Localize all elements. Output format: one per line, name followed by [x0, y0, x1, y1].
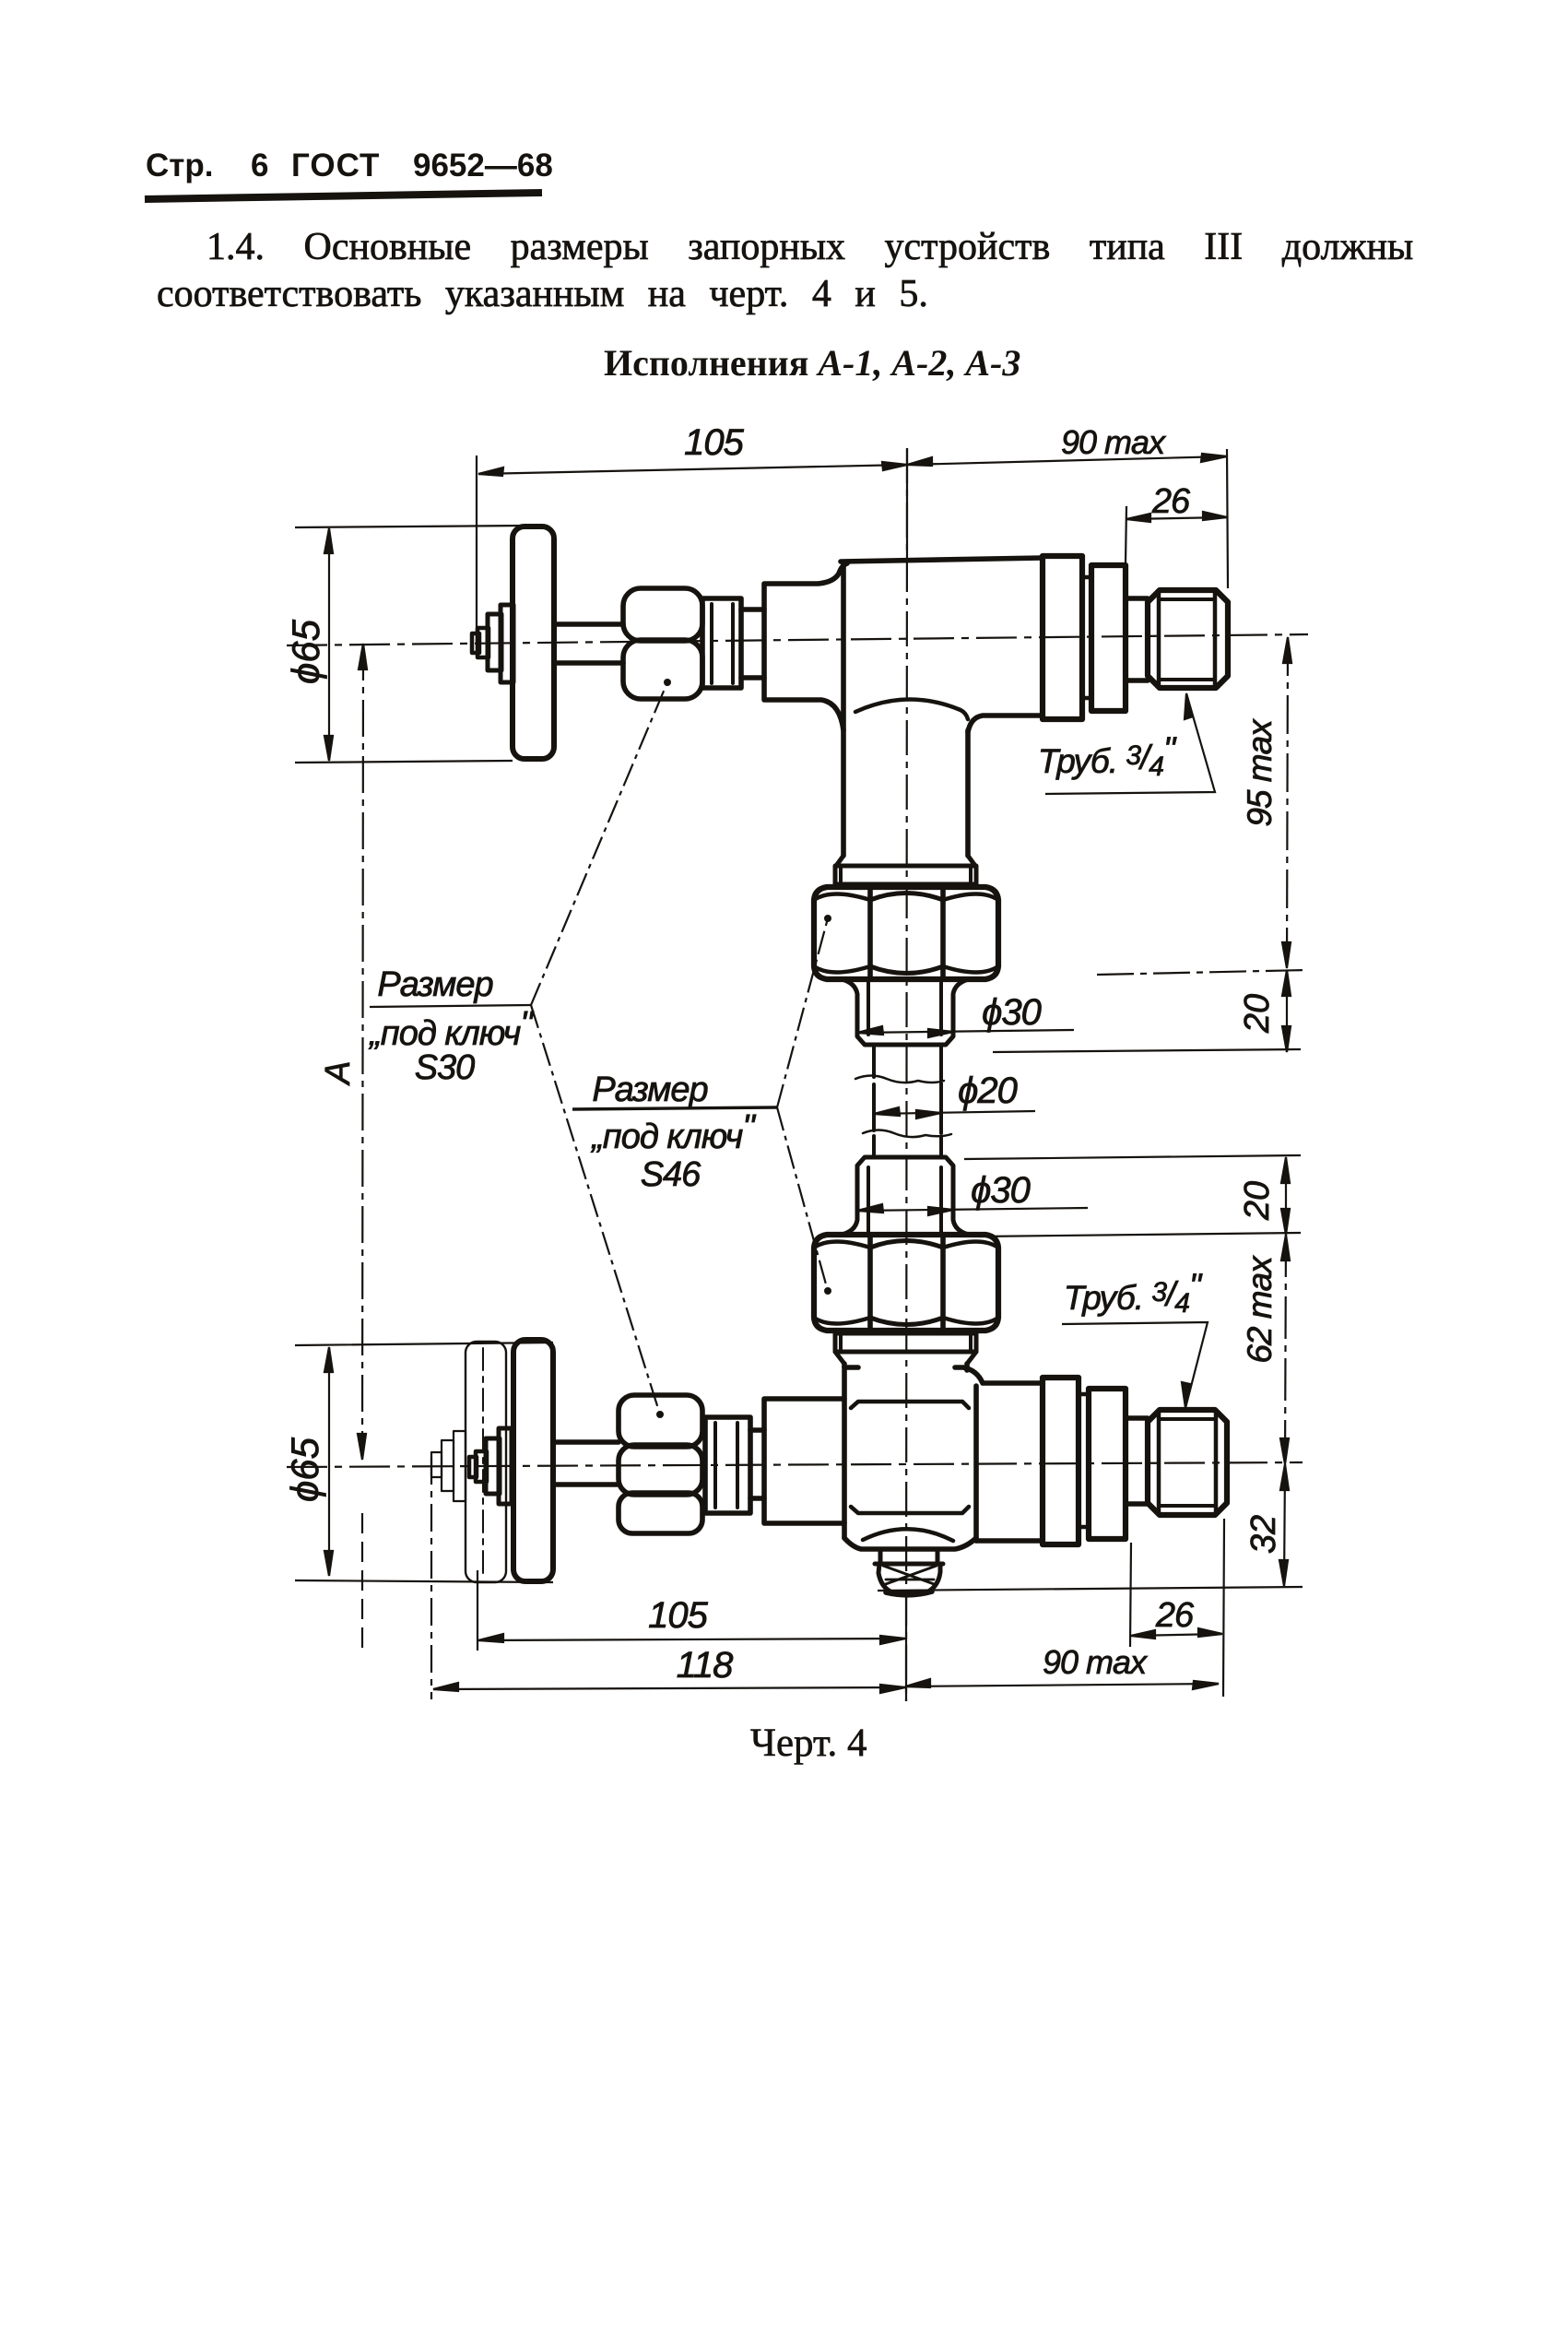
- packing hex nut bottom lobe: [619, 1493, 702, 1533]
- dim 90 max bottom: [905, 1684, 1219, 1686]
- break squiggle 2: [863, 1130, 951, 1138]
- stem nut step: [477, 628, 489, 657]
- svg-text:32: 32: [1244, 1515, 1283, 1554]
- flange 2: [1089, 1389, 1126, 1539]
- packing hex nut bottom lobe: [623, 640, 702, 699]
- handwheel disc (bottom): [513, 1340, 553, 1581]
- neck 2: [1126, 598, 1148, 680]
- dim φ65 bottom: [328, 1347, 330, 1576]
- dim φ30 upper: [857, 1030, 1074, 1033]
- svg-text:26: 26: [1151, 482, 1191, 521]
- outlet pipe walls: [843, 563, 968, 856]
- right shoulder: [955, 1367, 1043, 1383]
- body bottom right + fillet: [968, 716, 1043, 732]
- stem tip: [469, 1457, 477, 1477]
- break squiggle 1: [855, 1076, 944, 1083]
- bottom of central block + drain plate: [844, 1538, 976, 1549]
- handwheel disc (top): [513, 527, 554, 759]
- svg-text:1.4. Основные размеры запорных: 1.4. Основные размеры запорных устройств…: [206, 226, 1413, 268]
- neck 2: [1126, 1418, 1148, 1504]
- svg-text:105: 105: [648, 1595, 708, 1636]
- spindle shaft: [554, 624, 623, 663]
- body left part: [764, 563, 847, 730]
- svg-text:S30: S30: [415, 1048, 475, 1087]
- svg-text:ГОСТ: ГОСТ: [291, 148, 380, 183]
- leader Труб bottom: [1062, 1322, 1208, 1408]
- svg-text:90 max: 90 max: [1061, 423, 1167, 461]
- svg-text:ϕ65: ϕ65: [283, 1437, 326, 1502]
- threaded nipple: [1148, 1410, 1227, 1515]
- leader S46 labels: [572, 1107, 777, 1109]
- gland bush: [705, 1417, 750, 1513]
- svg-text:Труб. 3/4": Труб. 3/4": [1038, 730, 1177, 782]
- upper union collar: [835, 866, 976, 884]
- ext lines 26 top: [1126, 449, 1228, 588]
- body top edge: [841, 558, 1043, 562]
- header underline: [145, 193, 542, 199]
- svg-text:9652—68: 9652—68: [413, 148, 553, 183]
- ghost nut: [442, 1440, 454, 1491]
- dim A vertical: [362, 644, 363, 1460]
- dim 26 bottom: [1131, 1634, 1222, 1636]
- Размер под ключ S30: [368, 965, 756, 1194]
- inner dome arc: [863, 1529, 953, 1541]
- svg-text:95 max: 95 max: [1241, 718, 1279, 827]
- inner chamfer top: [851, 1402, 969, 1408]
- φ20 pipe between unions: [874, 1045, 941, 1157]
- svg-text:6: 6: [251, 148, 268, 183]
- dim φ65 top: [328, 528, 330, 761]
- svg-text:118: 118: [677, 1645, 735, 1686]
- heading Исполнения A-1, A-2, A-3: [604, 342, 1020, 384]
- stem nut: [486, 1438, 500, 1494]
- neck: [750, 1430, 764, 1498]
- svg-text:62 max: 62 max: [1241, 1255, 1279, 1364]
- svg-text:А: А: [319, 1060, 358, 1085]
- central block sides + top face stubs: [844, 1367, 976, 1541]
- stem nut step: [476, 1451, 487, 1482]
- svg-text:Черт. 4: Черт. 4: [750, 1722, 867, 1765]
- ext lines 26/90 bottom: [906, 1519, 1224, 1701]
- ghost disc dash-dot face line: [482, 1348, 484, 1579]
- svg-text:Исполнения А-1, А-2, А-3: Исполнения А-1, А-2, А-3: [604, 342, 1020, 384]
- svg-text:ϕ30: ϕ30: [982, 992, 1041, 1033]
- dim 95 max: [1287, 637, 1288, 968]
- ext line 105 top left: [476, 456, 477, 647]
- packing hex nut (S30) top lobe: [623, 588, 702, 641]
- svg-text:Размер: Размер: [377, 965, 492, 1004]
- drain plug cup with cross: [878, 1564, 940, 1592]
- spindle shaft: [553, 1442, 619, 1485]
- drain boss: [875, 1550, 943, 1564]
- neck to body: [741, 609, 764, 678]
- flange 1: [1043, 556, 1082, 719]
- dim 20 (second): [1285, 1157, 1287, 1235]
- neck in gap: [1079, 1394, 1089, 1527]
- dim 105 top: [478, 465, 907, 474]
- svg-text:90 max: 90 max: [1043, 1643, 1149, 1681]
- short pipe into bottom valve: [844, 1364, 967, 1370]
- packing hex nut top lobe: [619, 1395, 702, 1447]
- lower union hex nut (S46): [814, 1235, 998, 1331]
- stem tip: [472, 633, 479, 653]
- washer plate: [499, 1428, 512, 1504]
- gland bush: [702, 598, 741, 688]
- svg-text:ϕ65: ϕ65: [284, 619, 327, 684]
- svg-text:соответствовать указанным на ч: соответствовать указанным на черт. 4 и 5…: [157, 273, 928, 315]
- stem nut: [488, 614, 501, 670]
- svg-text:26: 26: [1155, 1596, 1195, 1635]
- svg-text:Труб. 3/4": Труб. 3/4": [1064, 1267, 1203, 1319]
- vertical main axis: [906, 448, 907, 1701]
- leader Труб top: [1045, 693, 1215, 794]
- ghost washer: [454, 1431, 466, 1501]
- upper union hex nut (S46): [814, 887, 998, 979]
- svg-text:20: 20: [1238, 1181, 1277, 1221]
- flange 1: [1043, 1378, 1079, 1544]
- dim 26 top: [1126, 517, 1227, 519]
- dim 62 max: [1285, 1235, 1286, 1464]
- inner chamfer bottom: [851, 1507, 969, 1513]
- dim φ30 lower: [857, 1208, 1088, 1211]
- svg-text:Размер: Размер: [592, 1071, 707, 1109]
- svg-text:105: 105: [684, 422, 744, 463]
- svg-text:20: 20: [1238, 994, 1277, 1034]
- lower union collar: [835, 1333, 976, 1352]
- packing hex nut middle lobe: [619, 1445, 702, 1495]
- dim 90 max top: [907, 456, 1227, 465]
- body left block: [764, 1399, 844, 1523]
- svg-text:ϕ30: ϕ30: [971, 1170, 1030, 1211]
- ghost handwheel disc (alternate position, thin): [466, 1342, 506, 1582]
- bottom valve horizontal centerline: [287, 1462, 1303, 1467]
- dim φ20: [874, 1111, 1035, 1114]
- svg-text:„под ключ": „под ключ": [368, 1005, 534, 1053]
- flange 2: [1091, 565, 1126, 711]
- svg-text:Стр.: Стр.: [146, 148, 214, 183]
- dim 105 bottom: [477, 1570, 478, 1651]
- upper union collar flare: [836, 856, 975, 866]
- ext lines φ65 top: [295, 526, 525, 763]
- svg-text:S46: S46: [641, 1155, 701, 1194]
- washer plate: [501, 605, 513, 682]
- leader S30 labels: [370, 1005, 531, 1007]
- dim 32: [1284, 1464, 1285, 1586]
- top valve horizontal centerline: [287, 634, 1308, 645]
- inner bore dome arc: [855, 699, 968, 719]
- threaded nipple (Труб 3/4): [1148, 590, 1228, 688]
- dim 118: [430, 1457, 432, 1699]
- paragraph 1.4: [157, 226, 1413, 315]
- ghost tip: [431, 1452, 442, 1477]
- neck in gap: [1082, 577, 1091, 698]
- right portion bottom: [976, 1538, 1043, 1544]
- dim 20 (first): [1286, 970, 1288, 1052]
- lower nipple (φ30): [842, 1157, 969, 1235]
- page header text: [146, 148, 553, 183]
- upper nipple below nut (φ30): [842, 979, 969, 1045]
- svg-text:ϕ20: ϕ20: [958, 1071, 1017, 1111]
- ext line axis top: [906, 448, 908, 557]
- svg-text:„под ключ": „под ключ": [590, 1108, 756, 1156]
